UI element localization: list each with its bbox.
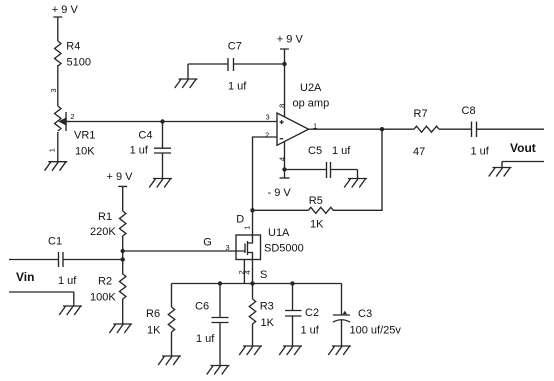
svg-text:1 uf: 1 uf bbox=[196, 333, 215, 345]
svg-text:2: 2 bbox=[265, 131, 269, 140]
svg-text:R3: R3 bbox=[260, 301, 274, 313]
svg-text:C5: C5 bbox=[308, 145, 322, 157]
svg-text:1: 1 bbox=[313, 122, 317, 131]
svg-text:3: 3 bbox=[266, 113, 270, 122]
svg-text:10K: 10K bbox=[75, 146, 95, 158]
node C2 junction bbox=[290, 281, 294, 285]
node C6 junction bbox=[218, 281, 222, 285]
capacitor C5 bbox=[285, 162, 358, 179]
svg-text:4: 4 bbox=[243, 270, 252, 274]
svg-text:100 uf/25v: 100 uf/25v bbox=[350, 325, 402, 337]
svg-text:R1: R1 bbox=[98, 211, 112, 223]
svg-text:2: 2 bbox=[70, 112, 74, 121]
ground bbox=[239, 346, 262, 355]
wire body pin bbox=[243, 260, 245, 284]
node feedback junction bbox=[250, 208, 254, 212]
svg-text:C7: C7 bbox=[228, 41, 242, 53]
ground bbox=[149, 179, 172, 188]
svg-text:220K: 220K bbox=[90, 226, 116, 238]
svg-text:1 uf: 1 uf bbox=[471, 146, 490, 158]
svg-text:1 uf: 1 uf bbox=[228, 81, 247, 93]
wire gate bbox=[123, 250, 236, 252]
power -9V supply bbox=[280, 177, 290, 179]
ground bbox=[344, 179, 367, 188]
svg-text:1 uf: 1 uf bbox=[130, 145, 149, 157]
potentiometer VR1 bbox=[55, 106, 70, 131]
svg-text:SD5000: SD5000 bbox=[264, 243, 304, 255]
svg-text:R5: R5 bbox=[309, 195, 323, 207]
wire bbox=[439, 128, 472, 130]
resistor R5 bbox=[308, 207, 333, 213]
wire inverting input bbox=[253, 137, 278, 210]
svg-text:U2A: U2A bbox=[300, 82, 322, 94]
svg-text:VR1: VR1 bbox=[74, 130, 95, 142]
svg-text:1: 1 bbox=[242, 226, 251, 230]
wire source bbox=[252, 260, 254, 300]
svg-text:D: D bbox=[236, 214, 244, 226]
svg-text:Vin: Vin bbox=[16, 270, 34, 284]
wire bbox=[122, 236, 124, 274]
wire node input rail bbox=[66, 121, 277, 123]
svg-text:U1A: U1A bbox=[268, 227, 290, 239]
resistor R2 bbox=[120, 274, 126, 299]
power +9V supply (top-left) bbox=[53, 17, 62, 41]
svg-text:- 9 V: - 9 V bbox=[268, 187, 292, 199]
transistor U1A internals bbox=[236, 235, 253, 260]
ground bbox=[207, 366, 230, 375]
svg-text:op amp: op amp bbox=[293, 98, 330, 110]
svg-text:C8: C8 bbox=[462, 105, 476, 117]
wire drain bbox=[252, 210, 254, 235]
ground bbox=[489, 168, 512, 177]
node pin4 junction bbox=[250, 281, 254, 285]
svg-text:8: 8 bbox=[278, 104, 287, 108]
svg-text:1K: 1K bbox=[310, 219, 324, 231]
ground bbox=[328, 346, 351, 355]
port Vout stub bbox=[502, 162, 544, 168]
resistor R7 bbox=[414, 126, 439, 132]
svg-text:3: 3 bbox=[226, 243, 230, 252]
node output junction bbox=[380, 127, 384, 131]
svg-text:S: S bbox=[260, 269, 267, 281]
ground bbox=[109, 324, 132, 333]
ground bbox=[158, 356, 181, 365]
capacitor C1 bbox=[9, 252, 123, 267]
ground bbox=[279, 346, 302, 355]
capacitor C8 bbox=[472, 122, 545, 138]
resistor R1 bbox=[120, 211, 126, 236]
svg-text:G: G bbox=[203, 237, 212, 249]
node V+ junction bbox=[282, 62, 286, 66]
svg-text:3: 3 bbox=[49, 88, 58, 92]
resistor R4 bbox=[55, 41, 61, 66]
node C4 junction bbox=[160, 119, 164, 123]
capacitor C4 bbox=[154, 122, 171, 179]
resistor R6 bbox=[168, 284, 174, 357]
port Vin stub bbox=[9, 292, 74, 306]
svg-text:R4: R4 bbox=[66, 41, 80, 53]
node C5 junction bbox=[282, 167, 286, 171]
svg-text:R2: R2 bbox=[98, 276, 112, 288]
svg-text:C4: C4 bbox=[138, 130, 152, 142]
capacitor C6 bbox=[212, 284, 229, 366]
node C1 junction bbox=[121, 257, 125, 261]
wire source bus bbox=[172, 283, 342, 285]
node G junction bbox=[121, 249, 125, 253]
ground bbox=[45, 162, 68, 171]
svg-text:1 uf: 1 uf bbox=[58, 275, 77, 287]
svg-text:C1: C1 bbox=[48, 236, 62, 248]
capacitor C3 electrolytic bbox=[333, 284, 350, 347]
svg-text:+ 9 V: + 9 V bbox=[107, 171, 134, 183]
svg-text:5100: 5100 bbox=[67, 57, 91, 69]
capacitor C7 bbox=[188, 58, 285, 79]
wire V- bbox=[284, 141, 286, 178]
svg-text:Vout: Vout bbox=[510, 141, 536, 155]
svg-text:1 uf: 1 uf bbox=[301, 325, 320, 337]
wire bbox=[57, 65, 59, 106]
power +9V supply (middle) bbox=[118, 186, 127, 211]
wire feedback bbox=[333, 129, 382, 210]
wire output bbox=[309, 128, 415, 130]
resistor R3 bbox=[249, 299, 255, 346]
wire bbox=[253, 209, 309, 211]
svg-text:C3: C3 bbox=[358, 308, 372, 320]
capacitor C2 bbox=[285, 284, 302, 347]
svg-text:1K: 1K bbox=[261, 317, 275, 329]
op-amp U2A bbox=[277, 113, 309, 145]
transistor U1A box bbox=[236, 235, 261, 260]
svg-text:4: 4 bbox=[277, 157, 286, 161]
svg-text:C2: C2 bbox=[305, 307, 319, 319]
svg-text:+ 9 V: + 9 V bbox=[277, 34, 304, 46]
wire bbox=[57, 132, 59, 162]
svg-text:1 uf: 1 uf bbox=[332, 145, 351, 157]
svg-text:1: 1 bbox=[47, 148, 56, 152]
svg-text:C6: C6 bbox=[195, 301, 209, 313]
svg-text:100K: 100K bbox=[90, 292, 116, 304]
svg-text:R6: R6 bbox=[146, 308, 160, 320]
power +9V supply (op-amp) bbox=[280, 49, 289, 117]
svg-text:R7: R7 bbox=[414, 108, 428, 120]
wire bbox=[122, 299, 124, 324]
svg-text:1K: 1K bbox=[147, 325, 161, 337]
ground bbox=[175, 79, 198, 88]
svg-text:47: 47 bbox=[413, 146, 425, 158]
svg-text:+ 9 V: + 9 V bbox=[52, 4, 79, 16]
ground bbox=[59, 306, 82, 315]
